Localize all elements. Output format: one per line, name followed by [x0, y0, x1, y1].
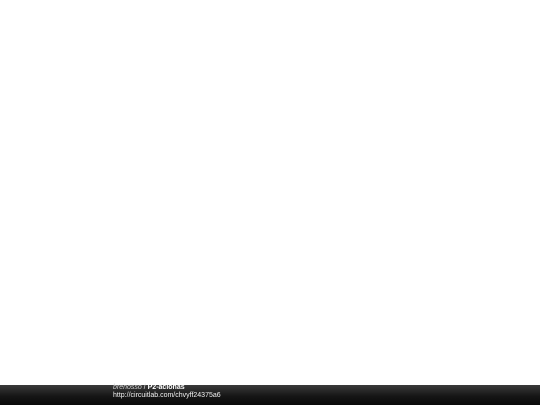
footer bar — [0, 385, 540, 405]
